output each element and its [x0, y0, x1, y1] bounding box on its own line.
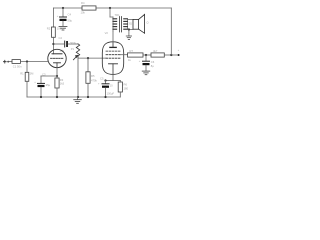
wire R5 to ground rail [87, 83, 89, 97]
svg-text:180: 180 [124, 86, 129, 90]
input terminal [3, 60, 6, 63]
node bus R3 [56, 96, 58, 98]
resistor R3 1k5 (triode cathode) [56, 76, 58, 78]
wire secondary to speaker [127, 19, 133, 21]
speaker LS1 [133, 14, 145, 33]
wire top rail left segment [53, 7, 82, 9]
node rail-C4 junction [62, 7, 64, 9]
triode V1 grid (dashed) [51, 57, 64, 59]
battery terminal + [178, 54, 180, 56]
node rail-transformer junction [109, 7, 111, 9]
ground under C6 [142, 71, 150, 75]
svg-text:4k7: 4k7 [153, 49, 158, 53]
wire R6 leads [119, 81, 121, 83]
pentode V2 control grid (dashed) [106, 57, 120, 59]
potentiometer P1 (volume, zigzag with wiper arrow) [73, 44, 79, 60]
svg-text:3Ω: 3Ω [128, 22, 132, 26]
node bus C3 [40, 96, 42, 98]
wire R7 to C6 node [143, 54, 151, 56]
svg-text:R3: R3 [60, 78, 64, 82]
pentode V2 envelope [102, 42, 123, 75]
capacitor C6 8u (screen filter) [139, 55, 155, 71]
svg-text:R2: R2 [47, 27, 51, 31]
wire junction down to R1 [26, 62, 28, 73]
capacitor C3 25u (cathode bypass) [34, 73, 50, 97]
wire R8 to B+ corner [164, 54, 177, 56]
svg-text:Ω: Ω [147, 21, 149, 25]
wire cathode bar [106, 80, 121, 82]
transformer TR1 secondary [124, 19, 128, 30]
node bus C5 [104, 96, 106, 98]
node cathode junction [56, 75, 58, 77]
pentode V2 screen grid (dashed) [106, 54, 120, 56]
resistor R5 470k (pentode grid leak) [86, 72, 90, 84]
wire triode cathode down [56, 68, 58, 76]
svg-text:R7: R7 [130, 49, 134, 53]
svg-text:470k: 470k [91, 79, 97, 83]
ground on bus [74, 97, 82, 103]
pentode V2 suppressor grid (dashed) [106, 50, 120, 52]
svg-text:R4: R4 [81, 1, 85, 5]
node pentode cathode junction [104, 79, 106, 81]
wire pentode plate to transformer [112, 31, 114, 42]
svg-text:1k5: 1k5 [60, 82, 65, 86]
svg-text:8µ: 8µ [151, 64, 154, 68]
node input-R1 junction [26, 60, 28, 62]
pentode V2 cathode [109, 63, 118, 65]
wire junction down to R5 [87, 58, 89, 72]
svg-text:C1 50n: C1 50n [13, 65, 22, 69]
wire ground bus [27, 96, 120, 98]
wire left drop to plate resistor [52, 8, 54, 27]
transformer TR1 primary [110, 8, 117, 31]
wire pot bottom to ground rail [77, 57, 79, 97]
capacitor C4 50u (rail decoupling electrolytic) [57, 8, 73, 26]
wire C2 to pot [68, 43, 78, 45]
resistor R1 1M (grid leak) [25, 72, 29, 81]
resistor R2 100k (triode plate load) [52, 27, 56, 37]
node screen filter junction [145, 54, 147, 56]
wire top rail middle segment [96, 7, 171, 9]
wire R3 to ground rail [56, 88, 58, 97]
svg-text:100k: 100k [57, 26, 63, 30]
capacitor C5 100u (pentode cathode bypass) [98, 76, 115, 97]
svg-text:10: 10 [110, 84, 113, 88]
capacitor C1 (input, block style) [12, 60, 20, 64]
svg-text:10k: 10k [81, 11, 86, 15]
capacitor C2 10n (coupling) [59, 36, 68, 52]
svg-text:500k: 500k [70, 41, 76, 45]
svg-text:50µ: 50µ [68, 19, 73, 23]
resistor R6 180 (pentode cathode) [118, 82, 122, 92]
svg-text:C5: C5 [100, 76, 104, 80]
svg-text:R6: R6 [124, 82, 128, 86]
resistor R7 1k (screen feed) [128, 53, 144, 57]
wire R1 to ground rail [26, 81, 28, 97]
node bus R5 [87, 96, 89, 98]
wire pentode cathode down [112, 74, 114, 80]
svg-text:100µF: 100µF [107, 91, 115, 95]
resistor R4 1k (rail decoupling) [82, 6, 96, 10]
svg-text:25µ: 25µ [46, 83, 51, 87]
ground under C4 [59, 26, 67, 30]
wire input to grid [20, 61, 48, 63]
node grid-R5 junction [87, 57, 89, 59]
triode V1 envelope [48, 49, 66, 67]
wire node to C2 [53, 43, 63, 45]
node bus pot [77, 96, 79, 98]
triode V1 plate [52, 53, 62, 55]
svg-text:C3: C3 [42, 73, 46, 77]
pentode V2 plate [110, 46, 116, 48]
svg-text:P1: P1 [71, 47, 75, 51]
triode V1 cathode [54, 62, 61, 64]
wire cathode to C3 [41, 75, 57, 77]
node secondary ground junction [128, 28, 130, 30]
svg-text:C4: C4 [68, 13, 72, 17]
wire pot to pentode grid [78, 57, 106, 59]
wire B+ riser [170, 8, 172, 55]
svg-text:V2: V2 [105, 31, 109, 35]
svg-text:R5: R5 [91, 74, 95, 78]
node plate-coupling junction [52, 43, 54, 45]
node B+ junction [170, 54, 172, 56]
svg-text:C2: C2 [59, 36, 63, 40]
wire pentode screen to R7 [120, 54, 128, 56]
transformer TR1 core [119, 17, 121, 33]
wire plate resistor to plate / coupling node [52, 37, 54, 54]
svg-text:R1: R1 [20, 71, 24, 75]
resistor R8 4k7 (dropper) [151, 53, 164, 57]
ground under secondary [126, 36, 131, 39]
svg-text:C6: C6 [151, 60, 155, 64]
